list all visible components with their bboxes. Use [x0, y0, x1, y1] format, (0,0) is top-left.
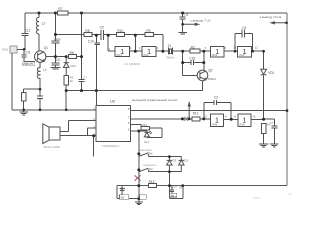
resistor R10: [116, 33, 124, 37]
resistor R8: [84, 33, 92, 37]
svg-text:SW2: SW2: [147, 167, 154, 171]
capacitor C16 row: [183, 60, 204, 65]
svg-text:Z1: Z1: [168, 44, 172, 48]
svg-text:C11: C11: [25, 51, 31, 55]
svg-text:к выводу 7 U1: к выводу 7 U1: [190, 18, 210, 22]
arrow to pin14 U1: [271, 22, 287, 24]
svg-text:R9: R9: [146, 29, 150, 33]
ground under bus: [19, 110, 28, 115]
svg-text:R12: R12: [193, 111, 199, 115]
svg-text:выходной управляющий сигнал: выходной управляющий сигнал: [132, 98, 178, 102]
capacitor C6: [37, 96, 43, 98]
wire fb1 vertical: [134, 35, 136, 51]
inverter U1.2: [142, 47, 156, 57]
svg-text:+C13: +C13: [118, 186, 125, 190]
wire mic down to bus: [11, 53, 13, 110]
capacitor C12: [22, 33, 29, 35]
transistor Q2: [197, 70, 208, 81]
svg-text:R10: R10: [117, 29, 123, 33]
wire Q2 collector: [203, 51, 205, 70]
svg-text:C16: C16: [189, 57, 195, 61]
svg-text:ЛН2: ЛН2: [143, 53, 149, 57]
inductor L2: [38, 13, 40, 51]
resistor R9: [145, 33, 153, 37]
svg-text:C7: C7: [270, 121, 274, 125]
svg-text:16Ом 0.25Вт: 16Ом 0.25Вт: [43, 145, 61, 149]
svg-text:к выводу 14 U1: к выводу 14 U1: [260, 15, 282, 19]
resistor R3 vertical: [261, 123, 265, 133]
svg-text:1К: 1К: [70, 79, 74, 83]
capacitor C1H2: [51, 41, 59, 43]
wire gate5 out: [224, 118, 239, 121]
svg-text:ЛН5: ЛН5: [212, 122, 218, 126]
label 2SB175 box: [22, 62, 34, 66]
svg-text:2SB175: 2SB175: [23, 62, 33, 66]
wire C1H2 column: [54, 13, 56, 57]
diode VD1: [261, 69, 267, 74]
wire melody column: [138, 131, 140, 186]
svg-text:R13: R13: [142, 123, 148, 127]
wire R6 right: [76, 56, 81, 58]
red X mark: [135, 175, 141, 180]
wire mid horizontal (Q2 emitter line): [66, 90, 203, 92]
wire U2 pin2 to speaker: [60, 121, 96, 132]
ground R3: [259, 144, 269, 147]
wire gate1 input: [108, 35, 115, 51]
wire gate3 out: [224, 50, 238, 52]
svg-text:Q2: Q2: [208, 68, 212, 72]
svg-text:ЛН3: ЛН3: [212, 53, 218, 57]
svg-text:R7: R7: [58, 7, 62, 11]
wire gate6 out: [251, 118, 274, 120]
wire R1 down through mid wire to bus: [65, 85, 67, 110]
wire Q1 right to node: [46, 56, 66, 58]
inverter U1.1: [115, 47, 129, 57]
battery cluster right: [169, 186, 182, 199]
wire gate2 out: [156, 50, 168, 52]
resistor R2: [190, 49, 200, 53]
wire right rail down: [286, 13, 288, 186]
svg-text:C12: C12: [25, 28, 31, 32]
capacitor C10: [95, 35, 101, 105]
led loop: [147, 128, 162, 138]
inductor L1: [39, 62, 41, 89]
wire gate4 out: [252, 50, 264, 52]
wire top power rail: [25, 12, 287, 14]
capacitor C4 loop: [235, 30, 253, 52]
svg-text:C4: C4: [242, 26, 246, 30]
led HL1: [144, 131, 152, 138]
svg-text:7В: 7В: [179, 185, 183, 189]
svg-text:BM1: BM1: [2, 47, 8, 51]
svg-text:VD3: VD3: [183, 158, 189, 162]
capacitor C5 + ground: [50, 57, 60, 69]
microphone BM1: [10, 46, 17, 53]
svg-text:C1H2: C1H2: [54, 37, 62, 41]
wire R2 out: [200, 50, 211, 52]
battery cluster left: [117, 186, 139, 199]
wire U2 pin5: [131, 130, 147, 132]
svg-text:2В: 2В: [137, 195, 141, 199]
wire gate1 out: [129, 50, 141, 52]
svg-text:32kHz: 32kHz: [166, 55, 175, 59]
X mark grey: [184, 117, 188, 121]
speaker: [49, 127, 60, 140]
switch SW2: [149, 171, 182, 173]
U2 box: [96, 105, 130, 141]
svg-text:R13: R13: [149, 180, 155, 184]
inverter U1.3: [210, 47, 224, 58]
capacitor C7a: [79, 80, 85, 82]
svg-text:9В: 9В: [171, 194, 175, 198]
svg-text:ЛН6: ЛН6: [239, 122, 245, 126]
wire U2 pin7 row: [131, 118, 211, 120]
wire Q2 base: [183, 63, 198, 76]
wire jog to R4: [24, 89, 40, 92]
transistor Q1: [35, 51, 46, 62]
svg-text:L1: L1: [43, 68, 47, 72]
resistor R1 vertical: [64, 76, 68, 85]
wire mic to base node: [17, 49, 24, 55]
svg-text:VD2: VD2: [171, 158, 177, 162]
wire L1 bottom to C6 to bus: [39, 89, 41, 110]
resistor R6: [68, 55, 76, 59]
svg-text:U2: U2: [110, 98, 116, 103]
svg-text:VD1: VD1: [268, 71, 274, 75]
wire VD junction down to rail: [168, 172, 170, 186]
svg-text:C8: C8: [184, 13, 188, 17]
svg-text:R8: R8: [85, 29, 89, 33]
svg-text:TR1913924-1: TR1913924-1: [102, 144, 120, 148]
wire x81.5 column: [81, 13, 83, 91]
resistor R4: [21, 92, 26, 101]
svg-text:2SB14: 2SB14: [208, 77, 217, 81]
svg-text:Q1: Q1: [44, 46, 48, 50]
svg-text:ЛН4: ЛН4: [239, 53, 245, 57]
wire feedback row y34.5: [55, 35, 162, 52]
svg-text:+C14: +C14: [170, 184, 177, 188]
svg-text:9В: 9В: [121, 195, 125, 199]
capacitor C8 + ground: [178, 13, 187, 34]
arrow to pin7 U1: [183, 23, 199, 25]
svg-text:HL1: HL1: [144, 140, 150, 144]
svg-text:C5: C5: [56, 58, 60, 62]
switch SW1: [149, 156, 182, 158]
varicap VD4 chain: [63, 57, 69, 76]
wire U2 pin3-pin4 loop: [88, 128, 97, 136]
wire bottom rail: [117, 185, 287, 187]
wire C12 branch: [24, 13, 26, 49]
wire speaker bottom: [60, 136, 94, 157]
svg-text:U1 CD4069: U1 CD4069: [124, 62, 139, 66]
svg-text:SW1: SW1: [147, 151, 154, 155]
svg-text:C10: C10: [88, 40, 94, 44]
capacitor C3 loop: [204, 100, 231, 119]
wire left bus (U2 pin1): [12, 109, 96, 111]
svg-text:VD4: VD4: [70, 64, 76, 68]
crystal Z1: [168, 48, 172, 55]
wire U2 pin8 row: [131, 110, 287, 112]
svg-text:C9: C9: [100, 26, 104, 30]
resistor R13b on rail: [148, 184, 156, 188]
capacitor C9: [101, 30, 104, 40]
diode VD3: [179, 157, 185, 172]
wire base: [24, 60, 35, 62]
wire U2 pin6 + resistor R13a: [131, 124, 141, 126]
inverter U1.5: [211, 114, 224, 126]
ground battery: [135, 202, 143, 205]
ground C7: [270, 144, 279, 147]
svg-text:ам: ам: [288, 192, 293, 196]
svg-text:C7: C7: [83, 75, 87, 79]
svg-text:C3: C3: [214, 96, 218, 100]
arrow control signal: [188, 103, 190, 119]
diode VD2: [167, 157, 173, 172]
resistor R12: [192, 117, 200, 121]
resistor R7 top: [58, 11, 68, 15]
capacitor C11: [22, 55, 27, 61]
svg-text:R2: R2: [191, 46, 195, 50]
svg-text:мил: мил: [253, 195, 261, 200]
svg-text:L2: L2: [42, 21, 46, 25]
inverter U1.4: [238, 47, 252, 58]
inverter U1.6: [238, 114, 251, 126]
wire Q2 emitter down: [202, 81, 204, 91]
svg-text:R6: R6: [70, 51, 74, 55]
wire R4 to bus: [23, 101, 25, 110]
capacitor C7 branch: [271, 119, 277, 144]
svg-text:ЛН1: ЛН1: [116, 53, 122, 57]
wire crystal lower node: [182, 51, 184, 62]
wire VD1 column: [263, 51, 265, 119]
